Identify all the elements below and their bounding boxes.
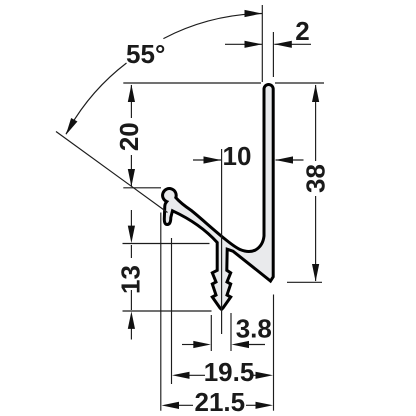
21.5 dim xyxy=(162,402,180,409)
svg-text:13: 13 xyxy=(116,265,146,294)
svg-text:3.8: 3.8 xyxy=(236,314,272,344)
20 bottom extension line xyxy=(123,187,161,189)
spike centre line xyxy=(221,149,223,334)
10 dimension xyxy=(193,159,221,161)
svg-text:55°: 55° xyxy=(126,39,165,69)
vertical extension lines of "2" xyxy=(261,5,263,82)
20 dimension line xyxy=(130,85,132,118)
profile cross-section (aluminium profile, grey fill, black outline) xyxy=(163,84,274,309)
19.5 dim xyxy=(172,372,190,379)
right extension line below tip xyxy=(273,295,275,411)
55deg arc xyxy=(66,14,262,135)
thin construction / dimension lines xyxy=(56,5,324,411)
13 dim (outside) xyxy=(128,226,135,244)
3.8 dim (outside) xyxy=(193,341,211,348)
3.8 extension lines xyxy=(210,315,212,351)
svg-text:10: 10 xyxy=(223,141,252,171)
svg-text:21.5: 21.5 xyxy=(194,387,245,416)
20 dim xyxy=(128,85,135,103)
19.5 extension + dimension xyxy=(171,238,173,384)
horizontal extension line at top of bar, y=83 xyxy=(123,82,261,84)
arc ends xyxy=(245,10,263,17)
13 dimension (arrows outside) xyxy=(130,210,132,229)
21.5 extension + dimension xyxy=(160,213,162,411)
svg-text:2: 2 xyxy=(295,16,309,46)
arrowheads xyxy=(63,10,320,409)
"2" dimension lines xyxy=(225,43,262,45)
38 dim xyxy=(312,85,319,103)
svg-text:19.5: 19.5 xyxy=(204,357,255,387)
2 dim xyxy=(245,41,263,48)
13 extension lines xyxy=(123,243,210,245)
55deg reference line xyxy=(56,132,168,213)
38 dimension line xyxy=(315,85,317,161)
38 bottom extension line xyxy=(287,281,322,283)
svg-text:38: 38 xyxy=(301,164,331,193)
svg-text:20: 20 xyxy=(114,122,144,151)
10 dim xyxy=(204,156,222,163)
3.8 arrows' tails xyxy=(182,344,195,346)
